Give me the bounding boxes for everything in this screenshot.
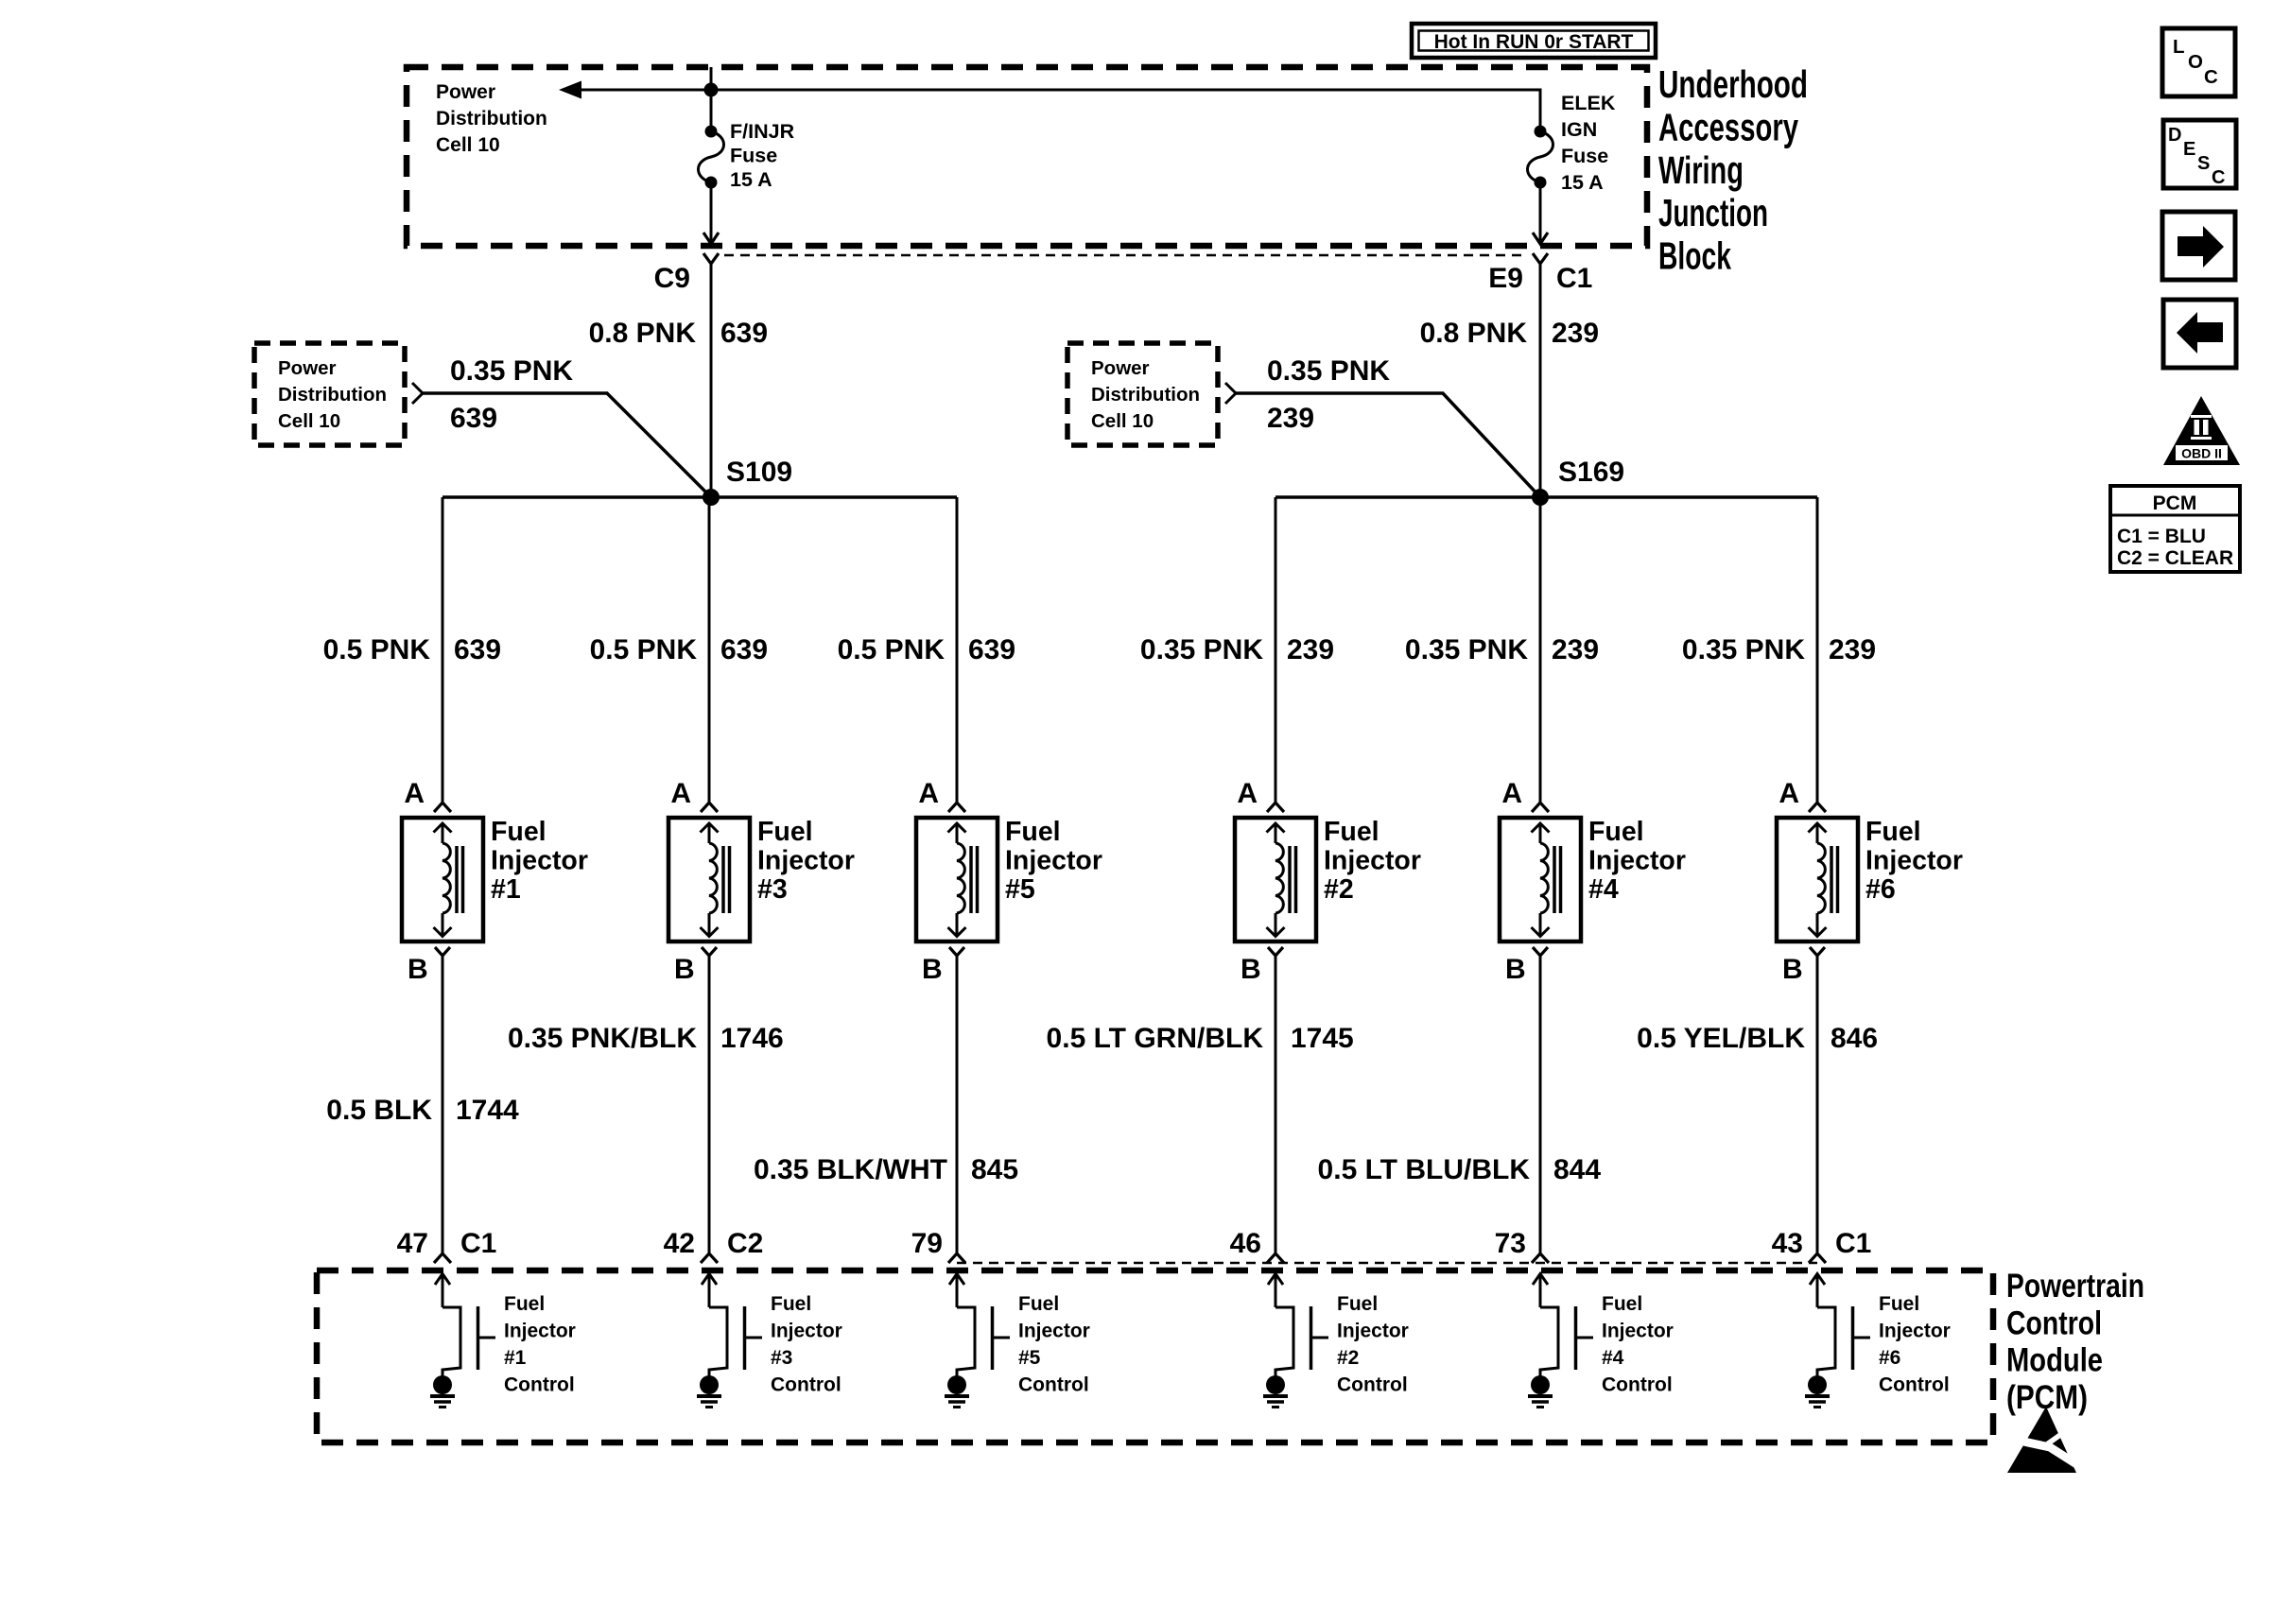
arrowhead to Power Distribution xyxy=(559,81,581,99)
svg-text:C: C xyxy=(2204,66,2218,88)
svg-text:B: B xyxy=(1782,954,1803,985)
svg-text:42: 42 xyxy=(664,1228,695,1259)
svg-text:Fuel: Fuel xyxy=(491,817,547,847)
bus wire left (S109) xyxy=(442,495,957,499)
svg-text:F/INJR: F/INJR xyxy=(730,120,795,143)
splice dot S109 xyxy=(703,489,720,506)
svg-text:#5: #5 xyxy=(1005,874,1035,905)
connector chevron E9 xyxy=(1533,253,1548,264)
svg-text:S169: S169 xyxy=(1558,457,1624,488)
svg-text:Control: Control xyxy=(2006,1304,2102,1341)
transistor Q4 (injector #4 driver) xyxy=(1540,1306,1593,1376)
svg-text:15 A: 15 A xyxy=(1561,171,1604,194)
svg-text:Injector: Injector xyxy=(1602,1321,1674,1342)
svg-text:Cell 10: Cell 10 xyxy=(278,410,340,432)
fuse F/INJR 15A xyxy=(705,126,718,138)
wire: fuse to connector E9 xyxy=(1539,182,1542,244)
svg-text:639: 639 xyxy=(454,634,501,665)
Underhood Accessory Wiring Junction Block dashed box xyxy=(407,67,1647,246)
svg-text:E9: E9 xyxy=(1488,263,1523,294)
svg-text:#3: #3 xyxy=(771,1347,792,1369)
svg-text:639: 639 xyxy=(968,634,1015,665)
label: Fuel Injector #5 xyxy=(1005,817,1102,905)
pin B chevron (injector #4) xyxy=(1533,947,1548,956)
svg-text:#4: #4 xyxy=(1602,1347,1624,1369)
svg-text:Powertrain: Powertrain xyxy=(2006,1268,2144,1304)
svg-text:L: L xyxy=(2173,36,2185,58)
icon: OBD II triangle xyxy=(2163,396,2240,465)
svg-text:Power: Power xyxy=(436,81,495,103)
label: Fuel Injector #4 xyxy=(1588,817,1686,905)
svg-text:Fuel: Fuel xyxy=(1588,817,1644,847)
svg-text:Control: Control xyxy=(1879,1374,1950,1396)
connector chevron C9 xyxy=(703,253,719,264)
svg-text:1746: 1746 xyxy=(720,1023,784,1054)
svg-text:Cell 10: Cell 10 xyxy=(1091,410,1154,432)
wire: injector #6 return to PCM xyxy=(1816,956,1819,1253)
fuel injector #6 internals: arrow, coil, core xyxy=(1809,823,1838,937)
svg-text:1744: 1744 xyxy=(456,1095,519,1126)
bus wire right (S169) xyxy=(1275,495,1817,499)
svg-text:Injector: Injector xyxy=(1588,846,1686,876)
svg-text:Injector: Injector xyxy=(757,846,855,876)
svg-text:Distribution: Distribution xyxy=(278,384,387,406)
wire: injector #4 return to PCM xyxy=(1539,956,1542,1253)
Hot In RUN 0r START callout box xyxy=(1412,24,1656,58)
PCM pin chevron (47) xyxy=(434,1253,451,1263)
svg-text:A: A xyxy=(918,778,939,809)
wire: C9 down to S109 xyxy=(710,264,713,497)
label: Powertrain Control Module (PCM) xyxy=(2006,1268,2144,1416)
svg-text:Control: Control xyxy=(1337,1374,1408,1396)
wire: E9 down to S169 xyxy=(1539,264,1542,497)
arrowhead down at E9 xyxy=(1533,233,1548,244)
pin A chevron (injector #5) xyxy=(948,803,965,812)
PCM driver for injector #5: entry arrow xyxy=(949,1273,964,1307)
wire: injector #1 return to PCM xyxy=(442,956,444,1253)
svg-text:B: B xyxy=(674,954,695,985)
svg-text:B: B xyxy=(922,954,943,985)
pin A chevron (injector #3) xyxy=(701,803,718,812)
label: ELEK IGN Fuse 15 A xyxy=(1561,92,1616,194)
svg-text:Injector: Injector xyxy=(1018,1321,1090,1342)
ground (injector #5 driver) xyxy=(945,1375,969,1408)
svg-text:Distribution: Distribution xyxy=(1091,384,1200,406)
chevron out of left stub box xyxy=(412,383,423,404)
svg-text:Power: Power xyxy=(278,357,337,379)
PCM driver for injector #2: entry arrow xyxy=(1268,1273,1283,1307)
svg-text:0.35 PNK: 0.35 PNK xyxy=(1140,634,1263,665)
svg-text:C: C xyxy=(2212,167,2225,188)
wire: injector #5 return to PCM xyxy=(956,956,959,1253)
svg-text:Underhood: Underhood xyxy=(1658,62,1808,106)
svg-text:239: 239 xyxy=(1552,634,1599,665)
legend: PCM connector colors xyxy=(2110,486,2240,572)
svg-text:Injector: Injector xyxy=(1337,1321,1409,1342)
PCM pin chevron (43) xyxy=(1809,1253,1826,1263)
wire: bus drop to fuel injector #4 xyxy=(1539,497,1542,803)
ground (injector #1 driver) xyxy=(430,1375,455,1408)
transistor Q5 (injector #5 driver) xyxy=(957,1306,1010,1376)
svg-text:O: O xyxy=(2188,51,2203,73)
transistor Q6 (injector #6 driver) xyxy=(1817,1306,1870,1376)
svg-text:E: E xyxy=(2183,139,2195,160)
label: Fuel Injector #1 Control xyxy=(504,1293,576,1396)
wire: injector #2 return to PCM xyxy=(1275,956,1277,1253)
connector line (thin dashed) at PCM C2/C1 xyxy=(957,1262,1817,1265)
Power Distribution Cell 10 dashed box (right stub) xyxy=(1067,343,1218,445)
svg-text:0.5 YEL/BLK: 0.5 YEL/BLK xyxy=(1637,1023,1805,1054)
svg-text:Fuel: Fuel xyxy=(504,1293,545,1315)
PCM driver for injector #3: entry arrow xyxy=(702,1273,717,1307)
svg-text:#2: #2 xyxy=(1337,1347,1359,1369)
wire: injector #3 return to PCM xyxy=(708,956,711,1253)
pin B chevron (injector #6) xyxy=(1810,947,1825,956)
label: Fuel Injector #1 xyxy=(491,817,588,905)
wire: C9 drop from box top xyxy=(710,67,713,131)
ESD sensitivity symbol xyxy=(2007,1407,2081,1473)
fuel injector #2 internals: arrow, coil, core xyxy=(1267,823,1296,937)
fuel injector #5 box xyxy=(916,818,998,942)
svg-text:C1: C1 xyxy=(1556,263,1592,294)
svg-text:Injector: Injector xyxy=(1879,1321,1951,1342)
svg-text:0.35 PNK/BLK: 0.35 PNK/BLK xyxy=(508,1023,697,1054)
svg-text:Control: Control xyxy=(771,1374,842,1396)
svg-text:C9: C9 xyxy=(654,263,690,294)
PCM pin chevron (42) xyxy=(701,1253,718,1263)
svg-text:Power: Power xyxy=(1091,357,1150,379)
label: Power Distribution Cell 10 (inside junction block) xyxy=(436,81,547,156)
label: Fuel Injector #2 Control xyxy=(1337,1293,1409,1396)
fuse ELEK IGN 15A xyxy=(1535,126,1547,138)
svg-text:845: 845 xyxy=(971,1154,1018,1185)
PCM pin chevron (79) xyxy=(948,1253,965,1263)
svg-text:C2: C2 xyxy=(727,1228,763,1259)
arrowhead down at C9 xyxy=(703,233,719,244)
Power Distribution Cell 10 dashed box (left stub) xyxy=(254,343,405,445)
label: Fuel Injector #5 Control xyxy=(1018,1293,1090,1396)
fuel injector #3 internals: arrow, coil, core xyxy=(701,823,730,937)
wire: corner down to ELEK IGN fuse xyxy=(1539,89,1542,132)
svg-text:A: A xyxy=(1237,778,1258,809)
wire: 0.35 PNK 239 stub to S169 xyxy=(1236,393,1540,497)
svg-text:0.5 LT BLU/BLK: 0.5 LT BLU/BLK xyxy=(1318,1154,1531,1185)
svg-text:0.8 PNK: 0.8 PNK xyxy=(589,318,697,349)
svg-text:#6: #6 xyxy=(1879,1347,1900,1369)
ground (injector #2 driver) xyxy=(1263,1375,1288,1408)
label: F/INJR Fuse 15 A xyxy=(730,120,795,191)
transistor Q1 (injector #1 driver) xyxy=(442,1306,495,1376)
svg-text:Injector: Injector xyxy=(771,1321,842,1342)
ground (injector #4 driver) xyxy=(1528,1375,1553,1408)
svg-text:15 A: 15 A xyxy=(730,168,772,191)
svg-text:43: 43 xyxy=(1772,1228,1803,1259)
svg-text:Fuel: Fuel xyxy=(1005,817,1061,847)
svg-text:Fuel: Fuel xyxy=(1018,1293,1059,1315)
svg-text:#3: #3 xyxy=(757,874,788,905)
svg-text:A: A xyxy=(670,778,691,809)
wire: bus drop to fuel injector #2 xyxy=(1275,497,1277,803)
svg-text:46: 46 xyxy=(1230,1228,1261,1259)
svg-text:Injector: Injector xyxy=(1865,846,1963,876)
svg-text:Module: Module xyxy=(2006,1342,2103,1379)
fuel injector #2 box xyxy=(1235,818,1316,942)
label: Fuel Injector #6 Control xyxy=(1879,1293,1951,1396)
node: junction dot on F/INJR feed xyxy=(704,83,719,97)
svg-text:OBD II: OBD II xyxy=(2181,446,2222,461)
svg-text:D: D xyxy=(2168,125,2181,146)
wire: horizontal feed inside junction block xyxy=(577,89,1540,92)
svg-text:S109: S109 xyxy=(726,457,792,488)
pin B chevron (injector #2) xyxy=(1268,947,1283,956)
PCM pin chevron (73) xyxy=(1532,1253,1549,1263)
svg-text:0.5 PNK: 0.5 PNK xyxy=(838,634,946,665)
svg-text:0.35 PNK: 0.35 PNK xyxy=(1682,634,1805,665)
svg-text:639: 639 xyxy=(720,634,768,665)
svg-text:239: 239 xyxy=(1829,634,1876,665)
svg-text:C1: C1 xyxy=(1835,1228,1871,1259)
svg-text:73: 73 xyxy=(1495,1228,1526,1259)
chevron out of right stub box xyxy=(1225,383,1236,404)
label: Fuel Injector #6 xyxy=(1865,817,1963,905)
svg-text:0.35 PNK: 0.35 PNK xyxy=(450,355,573,387)
svg-text:0.5 PNK: 0.5 PNK xyxy=(323,634,431,665)
fuel injector #6 box xyxy=(1777,818,1858,942)
svg-text:239: 239 xyxy=(1287,634,1334,665)
svg-text:A: A xyxy=(404,778,425,809)
connector line (thin dashed) between C9 and E9 xyxy=(724,254,1528,257)
wire: 0.35 PNK 639 stub to S109 xyxy=(423,393,711,497)
pin B chevron (injector #5) xyxy=(949,947,964,956)
svg-text:Injector: Injector xyxy=(504,1321,576,1342)
svg-text:239: 239 xyxy=(1552,318,1599,349)
svg-text:Block: Block xyxy=(1658,234,1731,278)
svg-text:B: B xyxy=(408,954,428,985)
label: Underhood Accessory Wiring Junction Block xyxy=(1658,62,1808,278)
icon: forward arrow box xyxy=(2162,212,2235,280)
fuel injector #4 internals: arrow, coil, core xyxy=(1532,823,1561,937)
label: Fuel Injector #3 xyxy=(757,817,855,905)
svg-text:846: 846 xyxy=(1831,1023,1878,1054)
PCM driver for injector #4: entry arrow xyxy=(1533,1273,1548,1307)
svg-text:A: A xyxy=(1778,778,1799,809)
svg-text:PCM: PCM xyxy=(2153,492,2197,514)
svg-text:Control: Control xyxy=(504,1374,575,1396)
fuel injector #3 box xyxy=(668,818,750,942)
svg-text:A: A xyxy=(1501,778,1522,809)
svg-text:Fuel: Fuel xyxy=(1337,1293,1378,1315)
svg-text:Injector: Injector xyxy=(1005,846,1102,876)
icon: DESC box xyxy=(2163,120,2236,188)
svg-text:0.35 PNK: 0.35 PNK xyxy=(1405,634,1528,665)
svg-text:#4: #4 xyxy=(1588,874,1619,905)
pin B chevron (injector #3) xyxy=(702,947,717,956)
svg-text:0.5 LT GRN/BLK: 0.5 LT GRN/BLK xyxy=(1047,1023,1264,1054)
wire: bus drop to fuel injector #3 xyxy=(708,497,711,803)
svg-text:#6: #6 xyxy=(1865,874,1896,905)
svg-text:639: 639 xyxy=(720,318,768,349)
svg-text:Wiring: Wiring xyxy=(1658,148,1744,192)
wire: bus drop to fuel injector #5 xyxy=(956,497,959,803)
wire: fuse to connector C9 xyxy=(710,182,713,244)
svg-text:Fuse: Fuse xyxy=(1561,145,1608,167)
svg-text:0.5 BLK: 0.5 BLK xyxy=(326,1095,432,1126)
svg-text:Fuel: Fuel xyxy=(771,1293,811,1315)
fuel injector #5 internals: arrow, coil, core xyxy=(948,823,978,937)
svg-text:ELEK: ELEK xyxy=(1561,92,1616,114)
label: Fuel Injector #3 Control xyxy=(771,1293,842,1396)
svg-text:#5: #5 xyxy=(1018,1347,1041,1369)
svg-text:1745: 1745 xyxy=(1291,1023,1354,1054)
svg-text:IGN: IGN xyxy=(1561,118,1597,141)
svg-text:844: 844 xyxy=(1553,1154,1601,1185)
svg-text:79: 79 xyxy=(911,1228,943,1259)
svg-text:Control: Control xyxy=(1018,1374,1089,1396)
icon: LOC box xyxy=(2162,28,2235,96)
wire: bus drop to fuel injector #6 xyxy=(1816,497,1819,803)
label: Fuel Injector #2 xyxy=(1324,817,1421,905)
Powertrain Control Module dashed box xyxy=(317,1270,1993,1443)
PCM driver for injector #6: entry arrow xyxy=(1810,1273,1825,1307)
svg-text:Distribution: Distribution xyxy=(436,108,547,130)
label: Fuel Injector #4 Control xyxy=(1602,1293,1674,1396)
svg-text:0.35 BLK/WHT: 0.35 BLK/WHT xyxy=(754,1154,947,1185)
svg-text:Cell 10: Cell 10 xyxy=(436,134,500,156)
pin A chevron (injector #6) xyxy=(1809,803,1826,812)
svg-text:Accessory: Accessory xyxy=(1658,105,1798,148)
svg-text:Fuel: Fuel xyxy=(1602,1293,1642,1315)
ground (injector #3 driver) xyxy=(697,1375,721,1408)
pin B chevron (injector #1) xyxy=(435,947,450,956)
fuel injector #1 internals: arrow, coil, core xyxy=(434,823,463,937)
icon: back arrow box xyxy=(2163,300,2236,368)
svg-text:0.8 PNK: 0.8 PNK xyxy=(1420,318,1528,349)
svg-text:B: B xyxy=(1241,954,1261,985)
svg-text:0.5 PNK: 0.5 PNK xyxy=(590,634,698,665)
svg-text:639: 639 xyxy=(450,403,497,434)
pin A chevron (injector #4) xyxy=(1532,803,1549,812)
svg-text:C2 = CLEAR: C2 = CLEAR xyxy=(2117,547,2233,569)
svg-text:Fuel: Fuel xyxy=(1865,817,1921,847)
svg-text:#2: #2 xyxy=(1324,874,1354,905)
splice dot S169 xyxy=(1532,489,1549,506)
svg-text:Fuse: Fuse xyxy=(730,145,777,167)
svg-text:Fuel: Fuel xyxy=(757,817,813,847)
svg-text:Fuel: Fuel xyxy=(1324,817,1379,847)
svg-text:C1: C1 xyxy=(460,1228,496,1259)
svg-text:B: B xyxy=(1505,954,1526,985)
fuel injector #4 box xyxy=(1500,818,1581,942)
wire: bus drop to fuel injector #1 xyxy=(442,497,444,803)
svg-text:Hot In RUN 0r START: Hot In RUN 0r START xyxy=(1434,31,1634,53)
svg-text:Junction: Junction xyxy=(1658,191,1768,234)
svg-text:S: S xyxy=(2197,153,2210,174)
pin A chevron (injector #1) xyxy=(434,803,451,812)
pin A chevron (injector #2) xyxy=(1267,803,1284,812)
fuel injector #1 box xyxy=(402,818,483,942)
svg-text:#1: #1 xyxy=(504,1347,527,1369)
svg-text:#1: #1 xyxy=(491,874,521,905)
transistor Q2 (injector #2 driver) xyxy=(1275,1306,1328,1376)
svg-text:Injector: Injector xyxy=(491,846,588,876)
svg-text:239: 239 xyxy=(1267,403,1314,434)
svg-text:0.35 PNK: 0.35 PNK xyxy=(1267,355,1390,387)
PCM pin chevron (46) xyxy=(1267,1253,1284,1263)
PCM driver for injector #1: entry arrow xyxy=(435,1273,450,1307)
svg-text:C1 = BLU: C1 = BLU xyxy=(2117,526,2206,547)
svg-text:Fuel: Fuel xyxy=(1879,1293,1919,1315)
ground (injector #6 driver) xyxy=(1805,1375,1830,1408)
svg-text:Control: Control xyxy=(1602,1374,1673,1396)
svg-text:Injector: Injector xyxy=(1324,846,1421,876)
transistor Q3 (injector #3 driver) xyxy=(709,1306,762,1376)
svg-text:47: 47 xyxy=(397,1228,428,1259)
